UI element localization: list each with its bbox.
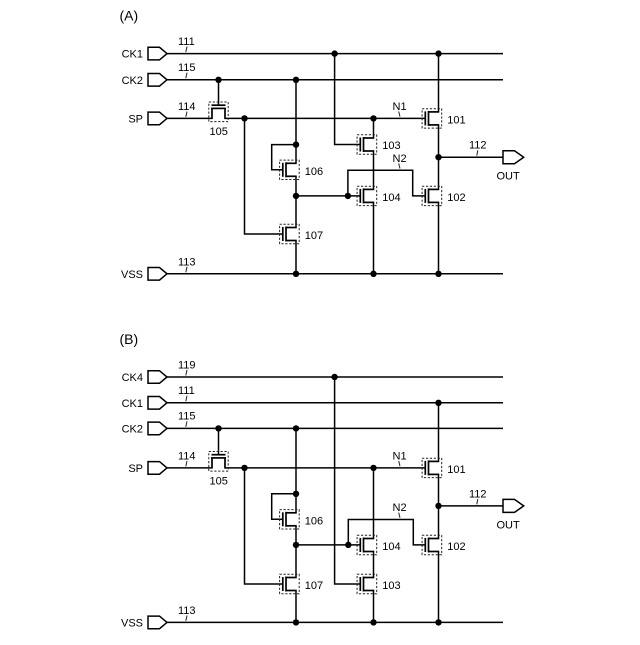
transistor 105 (B) bbox=[209, 452, 228, 472]
svg-text:N2: N2 bbox=[393, 502, 407, 514]
junction CK4/x334 (B) bbox=[331, 374, 337, 380]
svg-text:119: 119 bbox=[178, 359, 196, 371]
transistor 105 (A) bbox=[209, 102, 228, 122]
svg-text:112: 112 bbox=[469, 140, 487, 152]
wire CK1 bus (A) bbox=[167, 53, 503, 55]
svg-text:113: 113 bbox=[178, 605, 196, 617]
leader tick N1 (B) bbox=[399, 461, 400, 466]
junction N2/gate104 (B) bbox=[345, 542, 351, 548]
svg-text:SP: SP bbox=[128, 463, 143, 475]
wire CK1 bus (B) bbox=[167, 402, 503, 404]
leader tick N2 (B) bbox=[399, 513, 400, 518]
input terminal CK2 (A) bbox=[148, 74, 167, 87]
transistor 101 (B) bbox=[422, 458, 442, 477]
input terminal VSS (A) bbox=[148, 268, 167, 281]
wire CK2 to gate of 105 (B) bbox=[218, 428, 220, 454]
wire N1 to 103 (A) bbox=[373, 118, 375, 138]
node N1 junction (A) bbox=[370, 115, 376, 121]
wire 103-to-104 segment (A) bbox=[373, 151, 375, 189]
leader tick 113 (B) bbox=[186, 616, 187, 621]
output terminal OUT (A) bbox=[503, 151, 524, 164]
transistor 104 (B) bbox=[357, 535, 377, 554]
svg-text:103: 103 bbox=[382, 140, 400, 152]
node N1 junction (B) bbox=[370, 465, 376, 471]
wire 104-to-VSS segment (A) bbox=[373, 202, 375, 273]
wire node N2 net (B) bbox=[348, 520, 425, 545]
svg-text:105: 105 bbox=[210, 126, 228, 138]
svg-text:115: 115 bbox=[178, 62, 196, 74]
svg-text:CK1: CK1 bbox=[122, 49, 143, 61]
svg-text:OUT: OUT bbox=[497, 171, 521, 183]
transistor 102 (A) bbox=[422, 186, 442, 205]
svg-text:103: 103 bbox=[382, 580, 400, 592]
input terminal CK1 (A) bbox=[148, 47, 167, 60]
leader tick 119 (B) bbox=[186, 370, 187, 376]
junction SP/gate107 (B) bbox=[241, 465, 247, 471]
svg-text:104: 104 bbox=[382, 192, 400, 204]
transistor 102 (B) bbox=[422, 535, 442, 554]
svg-text:N2: N2 bbox=[393, 153, 407, 165]
svg-text:111: 111 bbox=[178, 36, 195, 48]
svg-text:N1: N1 bbox=[393, 101, 407, 113]
transistor 106 (B) bbox=[280, 510, 300, 529]
junction OUT node (A) bbox=[435, 154, 441, 160]
wire VSS bus (B) bbox=[167, 621, 503, 623]
wire CK1 to gate of 103 (A) bbox=[335, 54, 361, 145]
wire SP to gate of 107 (B) bbox=[245, 468, 283, 584]
wire 107-to-VSS segment (B) bbox=[295, 591, 297, 623]
output terminal OUT (B) bbox=[503, 499, 524, 512]
leader tick 115 (B) bbox=[186, 421, 187, 427]
wire 106-drain to gate of 104 (B) bbox=[296, 544, 360, 546]
wire SP/N1 segment to gate of 101 (A) bbox=[225, 117, 425, 119]
junction VSS/x373 (B) bbox=[370, 619, 376, 625]
wire 103-to-VSS segment (B) bbox=[373, 591, 375, 623]
svg-text:CK1: CK1 bbox=[122, 398, 143, 410]
wire CK2 bus (A) bbox=[167, 79, 503, 81]
leader tick 111 (A) bbox=[186, 47, 187, 53]
transistor 103 (B) bbox=[357, 574, 377, 593]
wire N1 to 104 (B) bbox=[373, 468, 375, 539]
junction CK1/x334 (A) bbox=[331, 50, 337, 56]
wire 106-drain to gate of 104 (A) bbox=[296, 195, 360, 197]
leader tick 114 (B) bbox=[186, 461, 187, 466]
wire CK2 down-leg at x296 (A) bbox=[295, 80, 297, 164]
input terminal SP (B) bbox=[148, 462, 167, 475]
wire diode loop of 106 (B) bbox=[272, 494, 296, 520]
junction VSS/x438 (B) bbox=[435, 619, 441, 625]
junction CK2/x296 (A) bbox=[293, 77, 299, 83]
svg-text:114: 114 bbox=[178, 450, 196, 462]
junction drain/gate of 106 (B) bbox=[293, 491, 299, 497]
leader tick 112 (A) bbox=[477, 150, 478, 155]
wire OUT line (B) bbox=[439, 505, 504, 507]
junction CK1/x438 (B) bbox=[435, 400, 441, 406]
junction CK2/gate105 (A) bbox=[215, 77, 221, 83]
svg-text:106: 106 bbox=[305, 166, 323, 178]
wire 101-to-102 segment (A) bbox=[438, 125, 440, 189]
leader tick 113 (A) bbox=[186, 267, 187, 272]
svg-text:113: 113 bbox=[178, 256, 196, 268]
junction N2/gate104 (A) bbox=[345, 193, 351, 199]
junction drain/gate of 106 (A) bbox=[293, 141, 299, 147]
svg-text:N1: N1 bbox=[393, 450, 407, 462]
wire CK2 bus (B) bbox=[167, 427, 503, 429]
wire SP/N1 segment to gate of 101 (B) bbox=[225, 467, 425, 469]
junction VSS/x296 (B) bbox=[293, 619, 299, 625]
wire OUT line (A) bbox=[439, 156, 504, 158]
svg-text:CK2: CK2 bbox=[122, 424, 143, 436]
junction x296/y545 (B) bbox=[293, 542, 299, 548]
svg-text:VSS: VSS bbox=[121, 269, 143, 281]
svg-text:115: 115 bbox=[178, 411, 196, 423]
leader tick 112 (B) bbox=[477, 499, 478, 504]
svg-text:101: 101 bbox=[447, 114, 465, 126]
junction SP/gate107 (A) bbox=[241, 115, 247, 121]
input terminal CK1 (B) bbox=[148, 397, 167, 410]
input terminal VSS (B) bbox=[148, 616, 167, 629]
svg-text:112: 112 bbox=[469, 488, 487, 500]
svg-text:102: 102 bbox=[447, 541, 465, 553]
leader tick N1 (A) bbox=[399, 112, 400, 117]
wire CK1 to 101 drain (A) bbox=[438, 54, 440, 112]
svg-text:102: 102 bbox=[447, 192, 465, 204]
wire 102-to-VSS segment (B) bbox=[438, 552, 440, 623]
wire 104-to-103 segment (B) bbox=[373, 552, 375, 578]
wire SP bus left segment (B) bbox=[167, 467, 212, 469]
wire CK4 to gate of 103 (B) bbox=[335, 377, 361, 584]
svg-text:105: 105 bbox=[210, 476, 228, 488]
junction x296/y196 (A) bbox=[293, 193, 299, 199]
junction CK2/gate105 (B) bbox=[215, 425, 221, 431]
svg-text:(B): (B) bbox=[120, 331, 139, 347]
input terminal CK2 (B) bbox=[148, 422, 167, 435]
junction VSS/x373 (A) bbox=[370, 271, 376, 277]
svg-text:101: 101 bbox=[447, 464, 465, 476]
transistor 103 (A) bbox=[357, 135, 377, 154]
svg-text:OUT: OUT bbox=[497, 519, 521, 531]
svg-text:SP: SP bbox=[128, 114, 143, 126]
svg-text:106: 106 bbox=[305, 515, 323, 527]
wire CK1 to 101 drain (B) bbox=[438, 403, 440, 462]
leader tick 115 (A) bbox=[186, 73, 187, 79]
svg-text:CK4: CK4 bbox=[122, 372, 143, 384]
leader tick 114 (A) bbox=[186, 112, 187, 117]
input terminal SP (A) bbox=[148, 112, 167, 125]
svg-text:104: 104 bbox=[382, 541, 400, 553]
transistor 101 (A) bbox=[422, 109, 442, 128]
svg-text:107: 107 bbox=[305, 580, 323, 592]
transistor 104 (A) bbox=[357, 186, 377, 205]
input terminal CK4 (B) bbox=[148, 371, 167, 384]
wire node N2 net (A) bbox=[348, 170, 425, 196]
wire diode loop of 106 (A) bbox=[272, 145, 296, 170]
wire SP bus left segment (A) bbox=[167, 117, 212, 119]
svg-text:111: 111 bbox=[178, 385, 195, 397]
junction VSS/x438 (A) bbox=[435, 271, 441, 277]
wire 106-to-107 segment (B) bbox=[295, 526, 297, 578]
wire VSS bus (A) bbox=[167, 273, 503, 275]
wire 106-to-107 segment (A) bbox=[295, 176, 297, 227]
wire SP to gate of 107 (A) bbox=[245, 118, 283, 234]
transistor 107 (A) bbox=[280, 224, 300, 243]
svg-text:114: 114 bbox=[178, 101, 196, 113]
wire 107-to-VSS segment (A) bbox=[295, 241, 297, 274]
svg-text:VSS: VSS bbox=[121, 618, 143, 630]
leader tick 111 (B) bbox=[186, 396, 187, 402]
svg-text:107: 107 bbox=[305, 230, 323, 242]
transistor 106 (A) bbox=[280, 160, 300, 179]
wire 102-to-VSS segment (A) bbox=[438, 202, 440, 273]
wire 101-to-102 segment (B) bbox=[438, 474, 440, 538]
junction CK2/x296 (B) bbox=[293, 425, 299, 431]
wire CK4 bus (B) bbox=[167, 376, 503, 378]
leader tick N2 (A) bbox=[399, 163, 400, 168]
wire CK2 down-leg at x296 (B) bbox=[295, 428, 297, 512]
junction VSS/x296 (A) bbox=[293, 271, 299, 277]
junction CK1/x438 (A) bbox=[435, 50, 441, 56]
wire CK2 to gate of 105 (A) bbox=[218, 80, 220, 105]
svg-text:CK2: CK2 bbox=[122, 75, 143, 87]
transistor 107 (B) bbox=[280, 574, 300, 593]
junction OUT node (B) bbox=[435, 503, 441, 509]
svg-text:(A): (A) bbox=[120, 8, 139, 24]
